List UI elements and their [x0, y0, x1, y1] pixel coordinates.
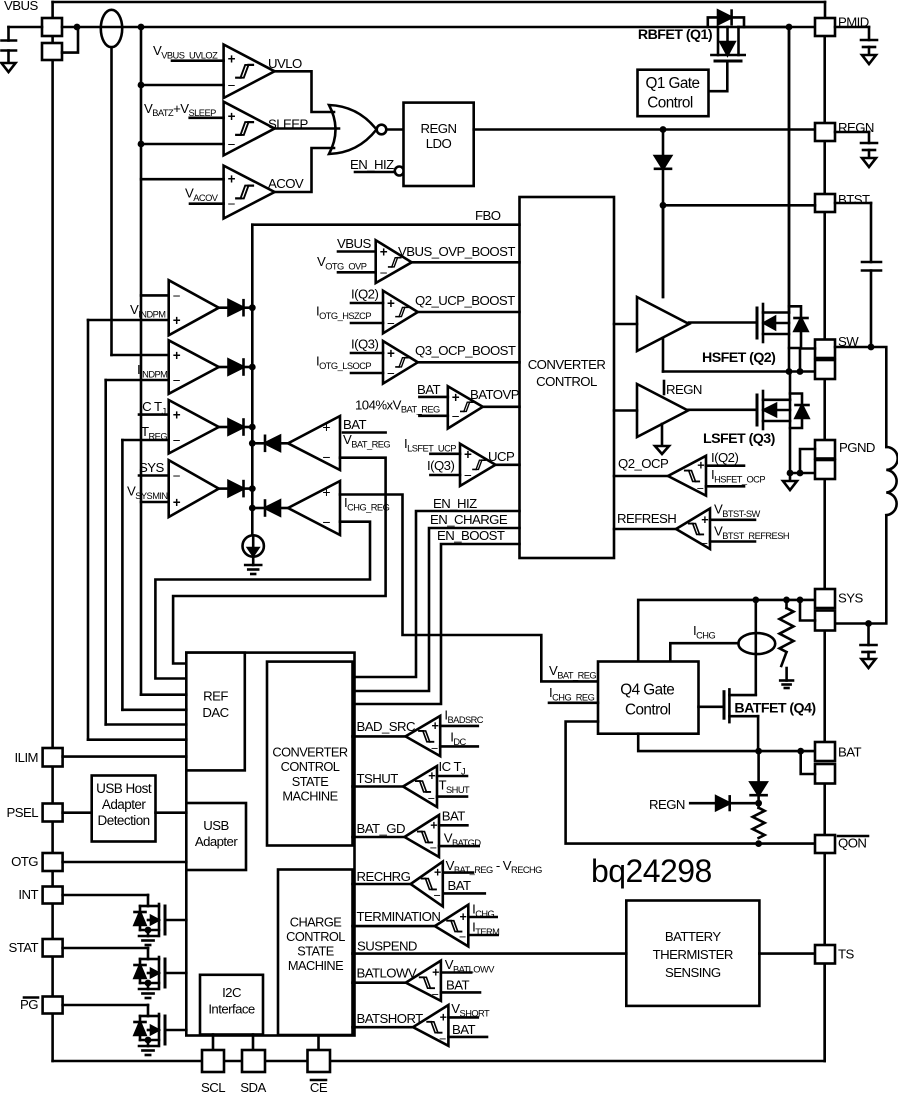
svg-text:I(Q2): I(Q2)	[711, 450, 738, 465]
svg-text:LSFET (Q3): LSFET (Q3)	[703, 431, 776, 447]
svg-text:LDO: LDO	[426, 136, 452, 151]
svg-text:−: −	[173, 288, 181, 303]
svg-text:+: +	[428, 769, 435, 783]
svg-text:−: −	[387, 366, 395, 381]
svg-text:+: +	[173, 408, 181, 423]
svg-text:Control: Control	[625, 701, 671, 718]
svg-text:−: −	[439, 1032, 446, 1046]
svg-text:−: −	[431, 741, 438, 755]
svg-text:+: +	[430, 818, 437, 832]
svg-text:−: −	[459, 930, 466, 944]
svg-text:UVLO: UVLO	[268, 56, 302, 71]
svg-text:−: −	[434, 888, 441, 902]
svg-text:TS: TS	[838, 947, 855, 962]
svg-text:STATE: STATE	[297, 944, 334, 959]
svg-text:−: −	[228, 78, 236, 93]
svg-text:+: +	[228, 172, 236, 187]
svg-text:+: +	[173, 495, 181, 510]
svg-text:BATSHORT: BATSHORT	[357, 1011, 424, 1026]
svg-text:Detection: Detection	[98, 813, 150, 828]
svg-text:+: +	[431, 719, 438, 733]
svg-text:−: −	[173, 433, 181, 448]
svg-text:I2C: I2C	[222, 985, 242, 1000]
svg-text:QON: QON	[838, 836, 866, 851]
svg-text:CHARGE: CHARGE	[290, 915, 341, 930]
svg-text:+: +	[173, 313, 181, 328]
svg-text:REGN: REGN	[666, 382, 702, 397]
svg-text:+: +	[460, 910, 467, 924]
svg-text:−: −	[464, 468, 472, 483]
svg-text:Adapter: Adapter	[102, 797, 146, 812]
svg-text:PGND: PGND	[839, 440, 875, 455]
svg-text:BAT_GD: BAT_GD	[357, 821, 406, 836]
svg-text:UCP: UCP	[488, 449, 515, 464]
svg-text:BAT: BAT	[838, 745, 862, 760]
svg-text:−: −	[701, 537, 708, 551]
svg-text:−: −	[428, 792, 435, 806]
svg-text:+: +	[322, 484, 330, 500]
svg-text:BAD_SRC: BAD_SRC	[357, 719, 416, 734]
svg-text:INT: INT	[18, 887, 38, 902]
svg-text:REGN: REGN	[649, 797, 685, 812]
svg-text:I(Q3): I(Q3)	[351, 337, 378, 352]
svg-text:SYS: SYS	[139, 460, 164, 475]
svg-text:+: +	[387, 296, 395, 311]
svg-text:SDA: SDA	[240, 1080, 266, 1094]
svg-text:RECHRG: RECHRG	[357, 869, 411, 884]
svg-text:RBFET (Q1): RBFET (Q1)	[638, 27, 713, 43]
svg-text:VBUS_OVP_BOOST: VBUS_OVP_BOOST	[398, 244, 515, 259]
svg-text:bq24298: bq24298	[591, 853, 712, 889]
svg-text:+: +	[380, 245, 388, 260]
svg-text:MACHINE: MACHINE	[282, 789, 337, 804]
svg-text:HSFET (Q2): HSFET (Q2)	[702, 350, 776, 366]
svg-text:EN_BOOST: EN_BOOST	[437, 528, 505, 543]
svg-text:OTG: OTG	[11, 854, 38, 869]
svg-text:−: −	[432, 987, 439, 1001]
svg-text:REGN: REGN	[421, 121, 457, 136]
svg-text:+: +	[434, 866, 441, 880]
svg-text:+: +	[440, 1010, 447, 1024]
svg-text:+: +	[701, 513, 708, 527]
svg-text:CONTROL: CONTROL	[536, 374, 597, 389]
svg-text:Control: Control	[647, 95, 693, 112]
svg-text:BATOVP: BATOVP	[470, 387, 520, 402]
svg-text:I(Q2): I(Q2)	[351, 287, 378, 302]
svg-text:Interface: Interface	[208, 1002, 255, 1017]
svg-text:BAT: BAT	[446, 978, 470, 993]
svg-text:−: −	[322, 514, 330, 530]
svg-text:REF: REF	[203, 689, 228, 704]
svg-text:PSEL: PSEL	[6, 805, 38, 820]
svg-text:−: −	[380, 265, 388, 280]
svg-text:USB Host: USB Host	[96, 781, 152, 796]
svg-text:USB: USB	[203, 818, 229, 833]
svg-text:BATLOWV: BATLOWV	[357, 966, 417, 981]
svg-text:Q2_UCP_BOOST: Q2_UCP_BOOST	[415, 293, 515, 308]
svg-text:TERMINATION: TERMINATION	[357, 909, 441, 924]
svg-text:BAT: BAT	[448, 878, 472, 893]
svg-text:ACOV: ACOV	[268, 176, 304, 191]
svg-text:−: −	[228, 137, 236, 152]
svg-text:CONVERTER: CONVERTER	[528, 357, 606, 372]
svg-text:SYS: SYS	[838, 591, 863, 606]
svg-text:FBO: FBO	[475, 208, 501, 223]
svg-text:STATE: STATE	[292, 774, 329, 789]
svg-text:CE: CE	[310, 1080, 328, 1094]
svg-text:SCL: SCL	[201, 1080, 225, 1094]
svg-text:SUSPEND: SUSPEND	[357, 939, 417, 954]
svg-text:−: −	[228, 197, 236, 212]
svg-text:+: +	[464, 447, 472, 462]
svg-text:+: +	[173, 348, 181, 363]
svg-text:+: +	[697, 459, 704, 473]
svg-text:+: +	[228, 109, 236, 124]
svg-text:SENSING: SENSING	[665, 965, 721, 980]
svg-text:DAC: DAC	[202, 705, 229, 720]
svg-text:+: +	[432, 966, 439, 980]
svg-text:−: −	[430, 841, 437, 855]
svg-text:−: −	[697, 481, 704, 495]
svg-text:VBUS: VBUS	[337, 236, 371, 251]
svg-text:Q1 Gate: Q1 Gate	[646, 75, 700, 92]
svg-text:BAT: BAT	[417, 382, 441, 397]
svg-text:−: −	[173, 373, 181, 388]
svg-text:BATTERY: BATTERY	[665, 929, 722, 944]
svg-text:+: +	[387, 346, 395, 361]
svg-text:PG: PG	[20, 997, 38, 1012]
svg-text:CONTROL: CONTROL	[281, 759, 340, 774]
svg-text:Adapter: Adapter	[195, 834, 238, 849]
svg-text:+: +	[322, 419, 330, 435]
svg-text:MACHINE: MACHINE	[288, 958, 343, 973]
svg-text:BAT: BAT	[452, 1022, 476, 1037]
svg-text:VBUS: VBUS	[4, 0, 38, 13]
svg-text:CONVERTER: CONVERTER	[272, 745, 347, 760]
svg-text:EN_HIZ: EN_HIZ	[350, 157, 394, 172]
svg-text:+: +	[452, 390, 460, 405]
svg-text:−: −	[322, 449, 330, 465]
svg-text:THERMISTER: THERMISTER	[653, 947, 733, 962]
svg-text:REFRESH: REFRESH	[617, 511, 676, 526]
svg-text:Q2_OCP: Q2_OCP	[618, 456, 669, 471]
svg-text:+: +	[228, 52, 236, 67]
svg-text:I(Q3): I(Q3)	[427, 458, 454, 473]
svg-text:BTST: BTST	[838, 192, 870, 207]
svg-text:EN_HIZ: EN_HIZ	[433, 496, 477, 511]
svg-text:BAT: BAT	[442, 809, 466, 824]
svg-text:EN_CHARGE: EN_CHARGE	[430, 512, 508, 527]
svg-text:Q4 Gate: Q4 Gate	[620, 681, 674, 698]
svg-text:ILIM: ILIM	[15, 750, 38, 765]
svg-text:−: −	[387, 316, 395, 331]
svg-text:BATFET (Q4): BATFET (Q4)	[734, 701, 816, 717]
svg-text:CONTROL: CONTROL	[286, 929, 345, 944]
svg-text:STAT: STAT	[8, 940, 38, 955]
svg-text:−: −	[173, 469, 181, 484]
svg-text:TSHUT: TSHUT	[357, 771, 399, 786]
svg-text:−: −	[452, 409, 460, 424]
svg-text:Q3_OCP_BOOST: Q3_OCP_BOOST	[415, 343, 516, 358]
svg-text:BAT: BAT	[343, 417, 367, 432]
